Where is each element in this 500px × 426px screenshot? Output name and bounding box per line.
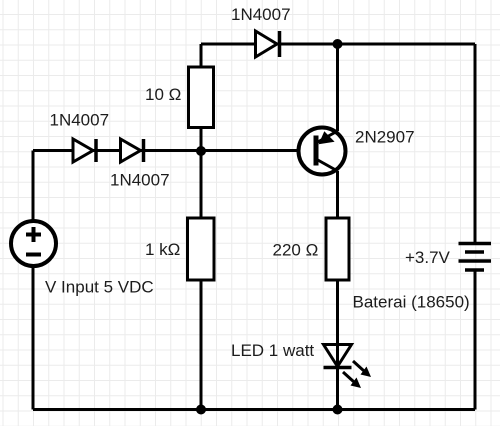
wire left drop to source	[32, 151, 35, 221]
label R2 1 kohm	[145, 240, 180, 259]
label D2 1N4007	[50, 111, 110, 130]
wire right rail bottom	[474, 270, 477, 410]
label D1 1N4007	[231, 5, 291, 24]
label R1 10 ohm	[145, 85, 181, 104]
label D3 1N4007	[110, 171, 170, 190]
svg-text:220 Ω: 220 Ω	[273, 241, 319, 260]
svg-text:10 Ω: 10 Ω	[145, 85, 181, 104]
wire top rail	[201, 43, 475, 46]
svg-text:1N4007: 1N4007	[110, 171, 170, 190]
svg-text:1N4007: 1N4007	[231, 5, 291, 24]
diode D2 1N4007 (left)	[73, 139, 96, 162]
label BT1 +3.7V	[405, 248, 451, 267]
resistor R2 1 kohm	[188, 218, 215, 280]
label D4 LED 1 watt	[231, 341, 314, 360]
wire emitter drop	[336, 44, 339, 131]
resistor R1 10 ohm	[189, 67, 214, 128]
svg-text:1N4007: 1N4007	[50, 111, 110, 130]
svg-text:Baterai (18650): Baterai (18650)	[353, 293, 470, 312]
wire R3 bottom to LED	[336, 280, 339, 366]
label R3 220 ohm	[273, 241, 319, 260]
wire bottom rail	[33, 408, 475, 411]
label V1 V Input 5 VDC	[45, 278, 154, 297]
node C junction dot (top)	[333, 39, 343, 49]
svg-text:2N2907: 2N2907	[355, 128, 415, 147]
node B junction dot (bottom left)	[196, 405, 206, 415]
wire source bottom to ground rail	[32, 266, 35, 410]
label Q1 2N2907	[355, 128, 415, 147]
label BT1 Baterai (18650)	[353, 293, 470, 312]
transistor Q1 2N2907	[299, 128, 346, 175]
node A junction dot	[196, 146, 206, 156]
node D junction dot (bottom right)	[333, 405, 343, 415]
svg-text:1 kΩ: 1 kΩ	[145, 240, 180, 259]
resistor R3 220 ohm	[326, 218, 349, 280]
LED D4	[324, 345, 372, 389]
wire LED to bottom rail	[336, 368, 339, 410]
wire node A to R2	[200, 151, 203, 218]
diode D1 1N4007 (top)	[256, 31, 280, 57]
svg-text:V Input 5 VDC: V Input 5 VDC	[45, 278, 154, 297]
svg-text:+3.7V: +3.7V	[405, 248, 451, 267]
svg-text:LED 1 watt: LED 1 watt	[231, 341, 314, 360]
voltage source V1	[11, 221, 56, 266]
wire R1 bottom to node A	[200, 128, 203, 152]
wire mid rail (base rail)	[33, 149, 316, 152]
wire right rail top	[474, 44, 477, 242]
wire top-left drop to R1	[200, 44, 203, 67]
wire collector to R3	[336, 171, 339, 218]
wire R2 bottom to bottom rail	[200, 280, 203, 410]
diode D3 1N4007 (left second)	[121, 139, 144, 162]
battery BT1	[459, 244, 492, 271]
